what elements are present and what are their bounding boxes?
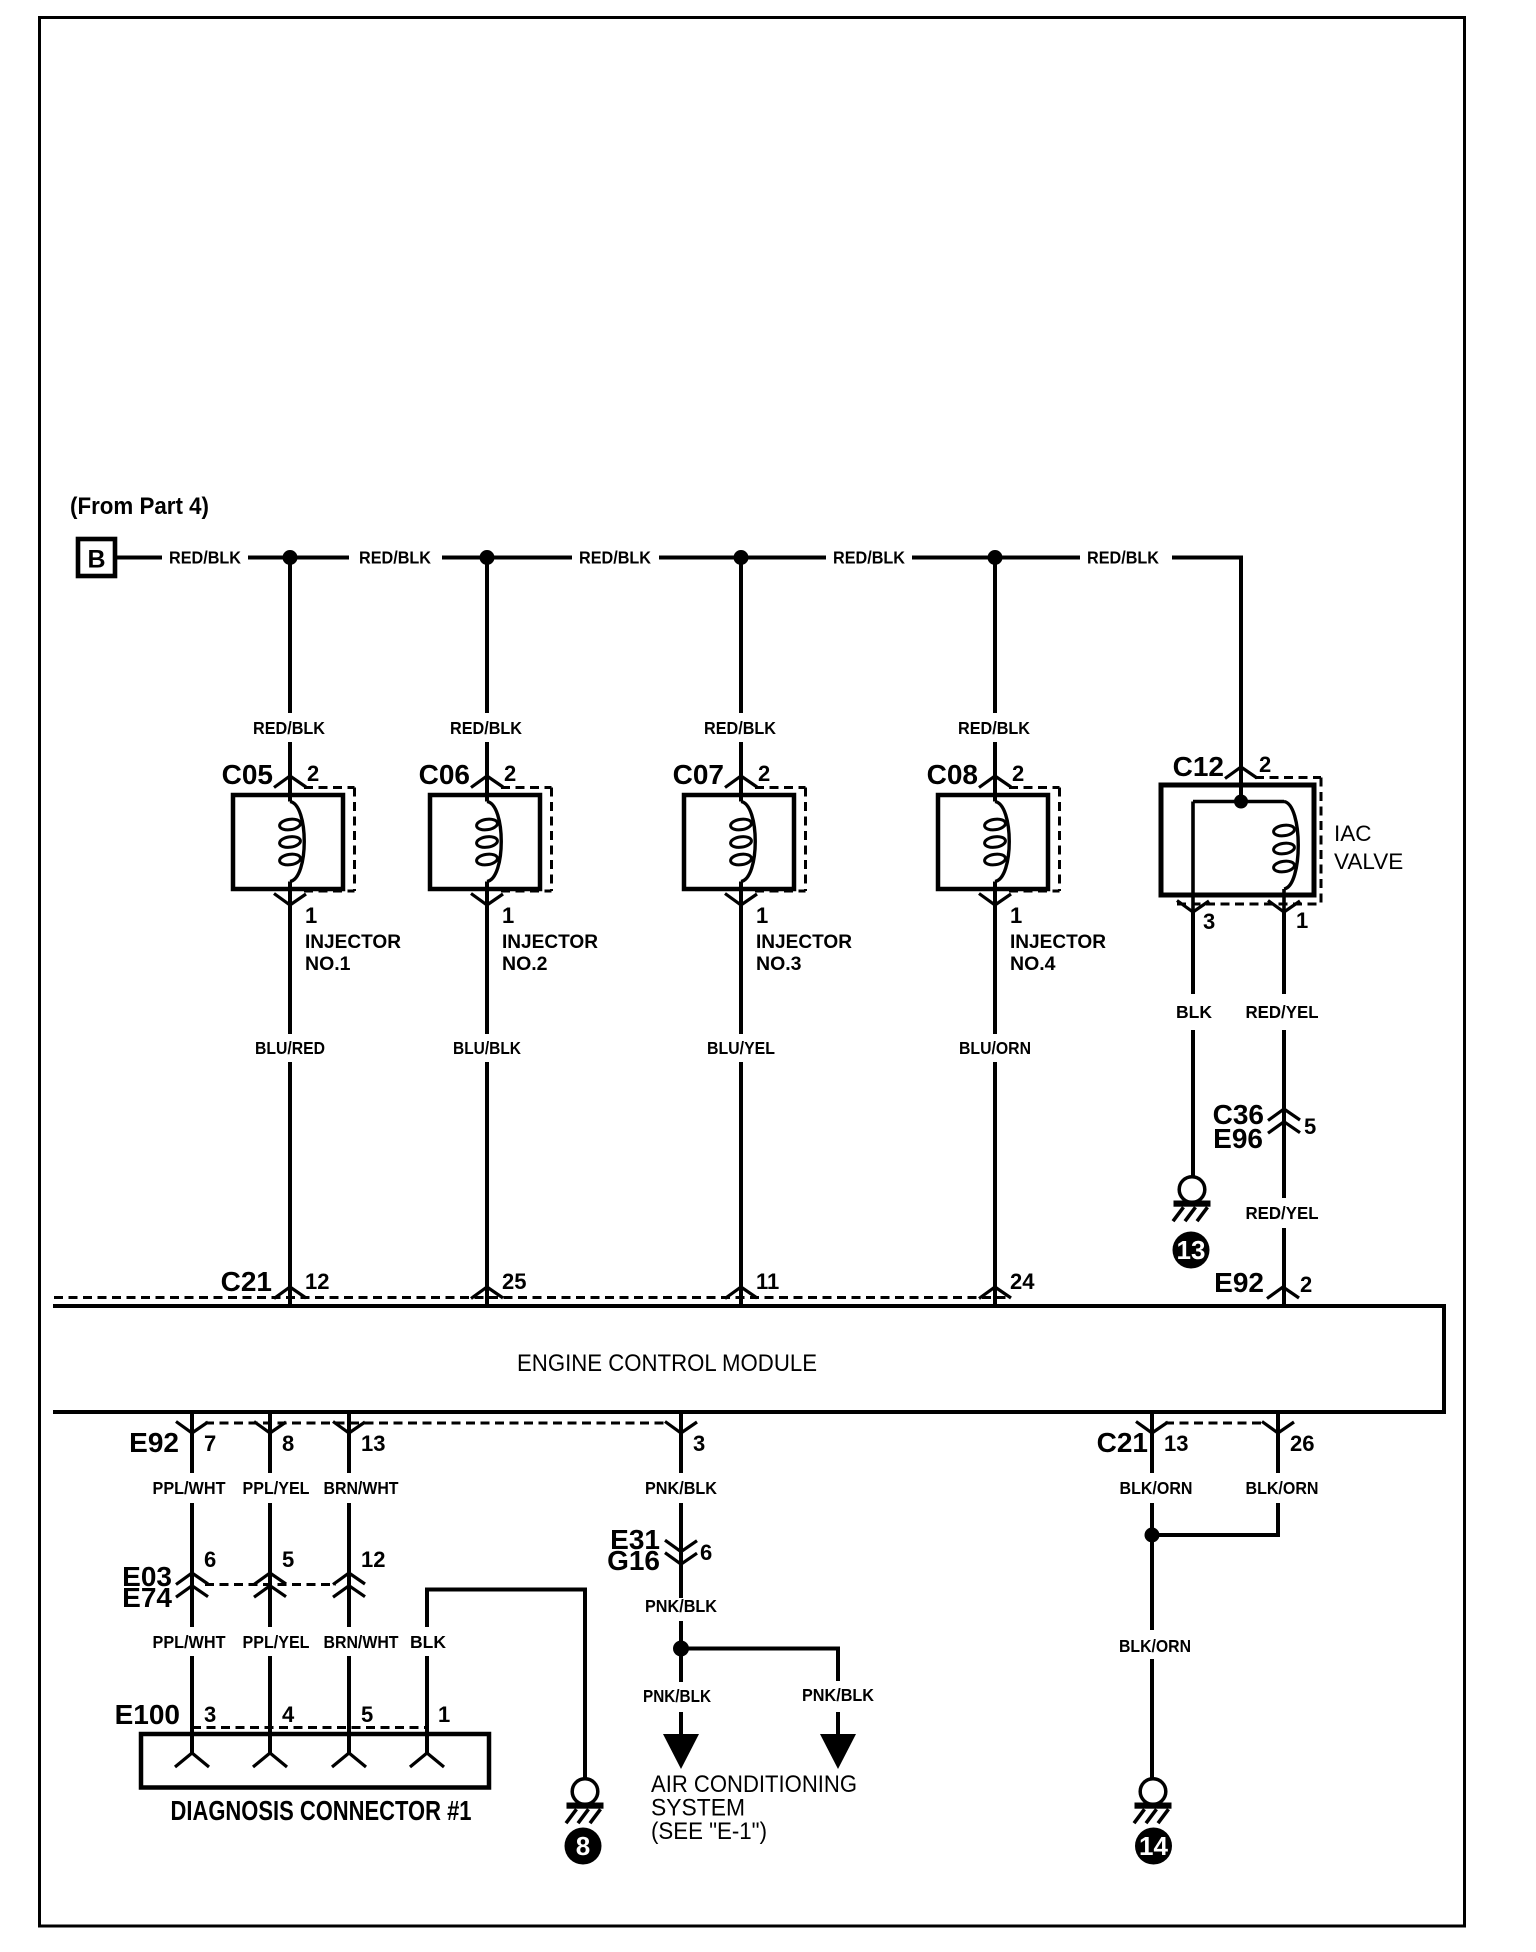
junction bus/injector 2 [480, 550, 495, 565]
svg-text:VALVE: VALVE [1334, 849, 1403, 874]
svg-text:E92: E92 [129, 1427, 179, 1458]
engine control module ECM box [53, 1306, 1444, 1412]
wire BLU/RED [288, 905, 292, 1034]
connector C07 pin 1 [725, 894, 757, 906]
svg-text:2: 2 [1259, 752, 1271, 777]
wire PPL/WHT lower [190, 1656, 194, 1753]
svg-text:RED/BLK: RED/BLK [579, 548, 651, 568]
svg-text:BLK/ORN: BLK/ORN [1246, 1478, 1319, 1498]
svg-text:BLK/ORN: BLK/ORN [1119, 1636, 1191, 1656]
junction inside IAC [1234, 795, 1248, 809]
svg-text:C05: C05 [222, 759, 273, 790]
svg-text:5: 5 [1304, 1114, 1316, 1139]
svg-text:E74: E74 [122, 1582, 172, 1613]
wire RED/BLK to injector 3 [739, 558, 743, 714]
injector NO.2 body [430, 795, 540, 889]
svg-text:6: 6 [204, 1547, 216, 1572]
wire BLK/ORN pin13 [1150, 1433, 1154, 1473]
svg-text:3: 3 [1203, 909, 1215, 934]
svg-text:24: 24 [1010, 1269, 1035, 1294]
junction bus/injector 4 [988, 550, 1003, 565]
connector C08 pin 1 [979, 894, 1011, 906]
svg-text:5: 5 [282, 1547, 294, 1572]
svg-text:IAC: IAC [1334, 821, 1372, 846]
ECM bottom dashed connector line [205, 1422, 668, 1425]
svg-text:RED/BLK: RED/BLK [359, 548, 431, 568]
svg-text:BLK: BLK [410, 1632, 446, 1652]
wire PNK/BLK 2 [679, 1621, 683, 1648]
connector E92 pin 8 [268, 1412, 272, 1433]
connector E92 pin 3 [679, 1412, 683, 1433]
diagnosis connector fork [253, 1753, 287, 1767]
injector NO.1 body [233, 795, 343, 889]
wire BRN/WHT lower [347, 1656, 351, 1753]
wire PNK/BLK right drop [836, 1712, 840, 1736]
svg-text:1: 1 [438, 1702, 450, 1727]
injector NO.4 body [938, 795, 1048, 889]
connector C21 pin 12 [274, 1287, 306, 1299]
svg-text:E92: E92 [1214, 1267, 1264, 1298]
wire BLU/YEL [739, 905, 743, 1034]
wire BLK to ground 8 [425, 1656, 429, 1753]
svg-text:C21: C21 [221, 1266, 272, 1297]
svg-text:26: 26 [1290, 1431, 1314, 1456]
svg-text:RED/BLK: RED/BLK [1087, 548, 1159, 568]
svg-text:C12: C12 [1173, 751, 1224, 782]
svg-text:1: 1 [1296, 908, 1308, 933]
svg-text:PPL/WHT: PPL/WHT [153, 1632, 226, 1652]
IAC valve case (dashed) [1255, 776, 1321, 779]
diagnosis connector #1 box [141, 1734, 489, 1788]
connector E92 pin 13 [347, 1412, 351, 1433]
wire into IAC [1239, 767, 1243, 802]
wire PPL/WHT upper [190, 1433, 194, 1473]
wire BRN/WHT upper [347, 1433, 351, 1473]
svg-text:2: 2 [504, 761, 516, 786]
connector C12 pin 3 [1177, 901, 1209, 913]
junction PNK/BLK [673, 1641, 689, 1657]
wire PNK/BLK branch right [681, 1649, 838, 1682]
svg-text:8: 8 [576, 1831, 590, 1861]
junction bus/injector 1 [283, 550, 298, 565]
svg-text:25: 25 [502, 1269, 526, 1294]
connector C05 pin 1 [274, 894, 306, 906]
injector NO.1 coil [290, 802, 304, 882]
svg-text:NO.4: NO.4 [1010, 953, 1056, 975]
diagnosis connector fork pin 1 [410, 1753, 444, 1767]
svg-text:PPL/YEL: PPL/YEL [243, 1632, 310, 1652]
wire BLK/ORN to ground [1150, 1659, 1154, 1779]
svg-text:INJECTOR: INJECTOR [502, 931, 598, 953]
connector B from part 4 [78, 539, 115, 576]
wire RED/BLK bus from B [115, 556, 162, 560]
svg-text:RED/BLK: RED/BLK [169, 548, 241, 568]
svg-text:BRN/WHT: BRN/WHT [324, 1632, 399, 1652]
svg-text:BLK/ORN: BLK/ORN [1120, 1478, 1193, 1498]
connector C21 pin 24 [979, 1287, 1011, 1299]
svg-text:INJECTOR: INJECTOR [756, 931, 852, 953]
svg-text:RED/BLK: RED/BLK [704, 718, 776, 738]
connector C21 pin 25 [471, 1287, 503, 1299]
svg-text:14: 14 [1139, 1831, 1168, 1861]
svg-text:INJECTOR: INJECTOR [305, 931, 401, 953]
wire PPL/YEL lower [268, 1656, 272, 1753]
svg-text:12: 12 [361, 1547, 385, 1572]
diagnosis connector fork [332, 1753, 366, 1767]
svg-text:C08: C08 [927, 759, 978, 790]
wire RED/BLK to injector 4 [993, 558, 997, 714]
svg-text:BLU/YEL: BLU/YEL [707, 1038, 775, 1058]
svg-text:C07: C07 [673, 759, 724, 790]
svg-text:RED/BLK: RED/BLK [450, 718, 522, 738]
wire BLU/ORN [993, 905, 997, 1034]
svg-text:G16: G16 [607, 1545, 660, 1576]
svg-text:8: 8 [282, 1431, 294, 1456]
wire RED/BLK to injector 2 [485, 558, 489, 714]
junction bus/injector 3 [734, 550, 749, 565]
ground G13 [1179, 1177, 1205, 1203]
ground badge 14 [1135, 1828, 1172, 1865]
svg-text:2: 2 [1012, 761, 1024, 786]
svg-text:5: 5 [361, 1702, 373, 1727]
connector C21 pin 11 [725, 1287, 757, 1299]
injector NO.3 coil [741, 802, 755, 882]
svg-text:RED/BLK: RED/BLK [253, 718, 325, 738]
IAC internal wire [1193, 800, 1284, 804]
svg-text:2: 2 [307, 761, 319, 786]
wire PPL/YEL upper [268, 1433, 272, 1473]
wire PNK/BLK left drop [679, 1649, 683, 1683]
injector NO.1 case (dashed) [304, 786, 355, 789]
svg-text:BLK: BLK [1176, 1002, 1212, 1022]
svg-text:1: 1 [1010, 903, 1022, 928]
connector E92 pin 7 [190, 1412, 194, 1433]
connector C12 pin 1 [1268, 901, 1300, 913]
injector NO.2 coil [487, 802, 501, 882]
svg-text:NO.1: NO.1 [305, 953, 351, 975]
wire RED/YEL 2 [1282, 1228, 1286, 1304]
svg-text:BLU/ORN: BLU/ORN [959, 1038, 1031, 1058]
svg-text:C21: C21 [1097, 1427, 1148, 1458]
svg-text:ENGINE CONTROL MODULE: ENGINE CONTROL MODULE [517, 1350, 817, 1377]
svg-text:E96: E96 [1213, 1123, 1263, 1154]
svg-text:RED/BLK: RED/BLK [833, 548, 905, 568]
svg-text:DIAGNOSIS CONNECTOR #1: DIAGNOSIS CONNECTOR #1 [171, 1795, 472, 1826]
svg-text:6: 6 [700, 1540, 712, 1565]
injector NO.4 case (dashed) [1009, 786, 1060, 789]
wire BLK/ORN pin26 [1276, 1433, 1280, 1473]
svg-text:RED/YEL: RED/YEL [1246, 1002, 1319, 1022]
svg-text:B: B [87, 546, 105, 574]
arrow to air conditioning (left) [663, 1734, 699, 1769]
svg-text:PNK/BLK: PNK/BLK [802, 1685, 874, 1705]
IAC valve body [1161, 785, 1314, 895]
injector NO.3 body [684, 795, 794, 889]
svg-text:13: 13 [1177, 1235, 1206, 1265]
wire RED/YEL from IAC pin 1 [1282, 912, 1286, 994]
svg-text:BLU/RED: BLU/RED [255, 1038, 325, 1058]
ECM top dashed connector line [54, 1296, 1010, 1299]
svg-text:PPL/YEL: PPL/YEL [243, 1478, 310, 1498]
injector NO.3 case (dashed) [755, 786, 806, 789]
injector NO.2 case (dashed) [501, 786, 552, 789]
ground badge 13 [1173, 1232, 1210, 1269]
svg-text:PNK/BLK: PNK/BLK [645, 1478, 717, 1498]
arrow to air conditioning (right) [820, 1734, 856, 1769]
svg-text:11: 11 [756, 1269, 779, 1294]
svg-text:1: 1 [756, 903, 768, 928]
svg-text:3: 3 [204, 1702, 216, 1727]
svg-text:C06: C06 [419, 759, 470, 790]
svg-text:(From Part 4): (From Part 4) [70, 493, 209, 520]
wire RED/BLK to injector 1 [288, 558, 292, 714]
wire BLK from IAC pin 3 [1191, 912, 1195, 994]
svg-text:3: 3 [693, 1431, 705, 1456]
svg-text:BLU/BLK: BLU/BLK [453, 1038, 521, 1058]
connector C21 pin 26 [1276, 1412, 1280, 1433]
wire BLU/BLK [485, 905, 489, 1034]
E03/E74 dashed line [205, 1583, 336, 1586]
diagnosis connector fork [175, 1753, 209, 1767]
svg-text:13: 13 [1164, 1431, 1188, 1456]
svg-text:(SEE "E-1"): (SEE "E-1") [651, 1818, 767, 1845]
ground badge 8 [565, 1828, 602, 1865]
connector C06 pin 1 [471, 894, 503, 906]
connector E03/E74 pin 5 [254, 1573, 286, 1585]
svg-text:PPL/WHT: PPL/WHT [153, 1478, 226, 1498]
wire RED/BLK to IAC valve [1239, 558, 1243, 768]
connector E03/E74 pin 6 [176, 1573, 208, 1585]
E100 dashed line [192, 1726, 427, 1729]
svg-text:1: 1 [502, 903, 514, 928]
svg-text:7: 7 [204, 1431, 216, 1456]
svg-text:INJECTOR: INJECTOR [1010, 931, 1106, 953]
connector E03/E74 pin 12 [333, 1573, 365, 1585]
ground G14 [1140, 1779, 1166, 1805]
svg-text:12: 12 [305, 1269, 329, 1294]
svg-text:2: 2 [1300, 1272, 1312, 1297]
svg-text:PNK/BLK: PNK/BLK [645, 1596, 717, 1616]
svg-text:NO.2: NO.2 [502, 953, 548, 975]
svg-text:BRN/WHT: BRN/WHT [324, 1478, 399, 1498]
svg-text:NO.3: NO.3 [756, 953, 802, 975]
ground G8 [572, 1779, 598, 1805]
junction BLK/ORN [1145, 1528, 1160, 1543]
svg-text:13: 13 [361, 1431, 385, 1456]
wire PNK/BLK 1 [679, 1433, 683, 1473]
svg-text:E100: E100 [115, 1699, 180, 1730]
svg-text:4: 4 [282, 1702, 295, 1727]
svg-text:RED/BLK: RED/BLK [958, 718, 1030, 738]
svg-text:2: 2 [758, 761, 770, 786]
svg-text:1: 1 [305, 903, 317, 928]
IAC coil [1284, 802, 1298, 890]
svg-text:RED/YEL: RED/YEL [1246, 1203, 1319, 1223]
svg-text:PNK/BLK: PNK/BLK [643, 1686, 711, 1706]
connector C21 pin 13 [1150, 1412, 1154, 1433]
injector NO.4 coil [995, 802, 1009, 882]
